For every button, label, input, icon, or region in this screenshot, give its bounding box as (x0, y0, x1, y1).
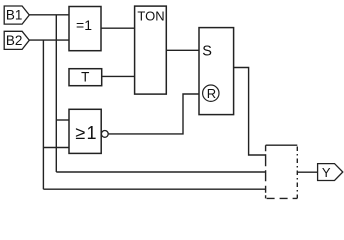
wire B1 to XOR input 1 (29, 14, 69, 16)
output flag Y (318, 164, 343, 181)
wire branch from B2 down (vertical at x=43.4) (42, 40, 44, 189)
svg-text:S: S (202, 43, 212, 59)
negation bubble (101, 131, 108, 138)
SR flipflop U1 (199, 28, 234, 115)
input flag B1 (4, 6, 29, 24)
svg-text:≥1: ≥1 (75, 123, 97, 143)
wire branch from B1 down (vertical at x=56.3) (55, 15, 57, 172)
svg-text:B1: B1 (6, 8, 23, 23)
wire TON output to S input of flipflop (166, 49, 199, 51)
OR gate >=1 with negated output (69, 109, 101, 153)
svg-text:T: T (81, 70, 89, 85)
svg-text:TON: TON (137, 8, 164, 23)
wire XOR output to TON input 1 (101, 27, 135, 29)
svg-text:R: R (207, 86, 216, 101)
wire from B2 branch to output block input 3 (43, 188, 265, 190)
pin label R (circled) (203, 85, 219, 101)
XOR gate =1 (69, 7, 101, 51)
wire branch from B2 into OR input 2 (43, 147, 69, 149)
svg-text:Y: Y (322, 165, 331, 180)
wire branch from B1 into OR input 1 (56, 119, 69, 121)
svg-text:B2: B2 (6, 33, 23, 48)
wire B2 to XOR input 2 (29, 39, 69, 41)
svg-text:=1: =1 (76, 17, 92, 33)
output block (dashed) (266, 145, 298, 198)
wire flipflop output to output block input 1 (234, 68, 266, 156)
wire from B1 branch to output block input 2 (56, 171, 265, 173)
timer value block T (69, 69, 102, 86)
input flag B2 (4, 31, 29, 49)
wire OR output to R input of flipflop (108, 94, 199, 134)
wire T output to TON input 2 (102, 75, 135, 77)
timer block TON (135, 6, 167, 94)
wire output block to Y (297, 171, 317, 173)
